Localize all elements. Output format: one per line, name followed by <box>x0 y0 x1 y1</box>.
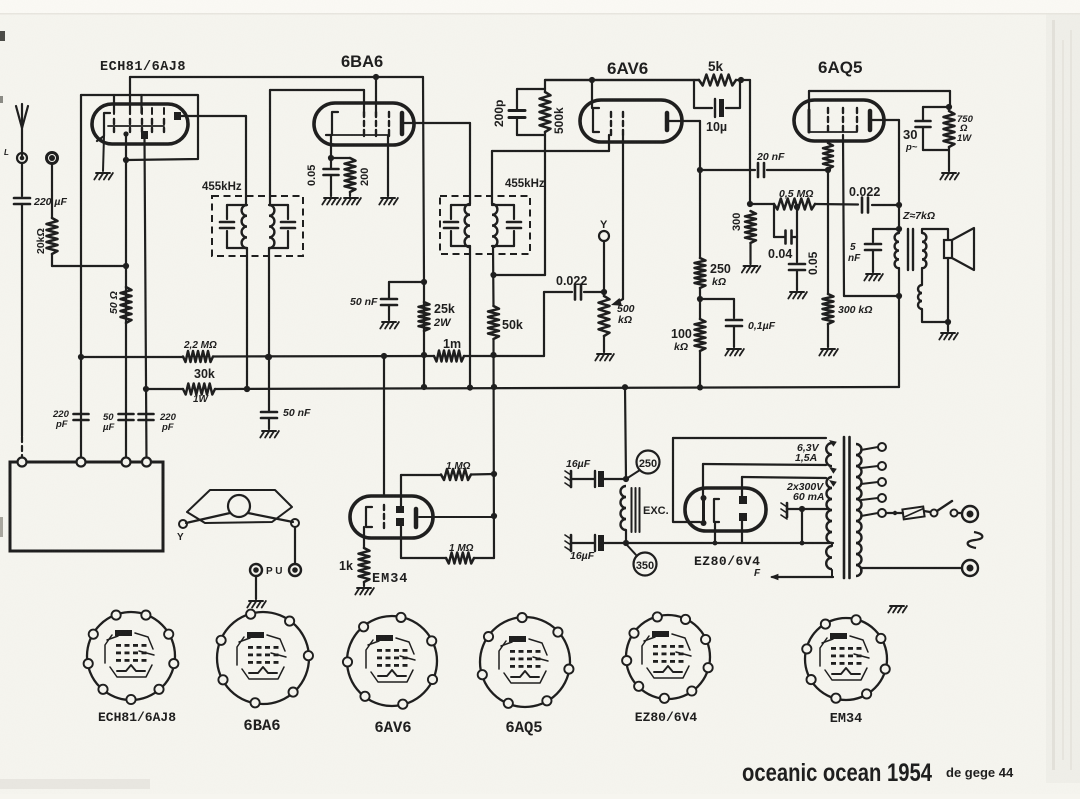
T2 secondary cap <box>492 205 521 246</box>
ground 50nF AVC <box>262 430 276 432</box>
ground speaker <box>941 332 955 334</box>
capacitor 50nF AVC <box>261 412 277 429</box>
resistor 30k <box>183 384 215 395</box>
eye voltage 250 <box>626 451 660 480</box>
label 25k 2W <box>433 302 455 329</box>
ground 750 ohm <box>942 172 956 174</box>
wire cathode line EZ80 <box>626 541 833 546</box>
tube U1 ECH81 envelope <box>92 104 188 144</box>
scan speck left middle <box>0 517 3 537</box>
resistor 5k <box>699 75 750 86</box>
U4 cathode <box>809 110 857 132</box>
power transformer primary <box>856 444 862 576</box>
field coil core bar <box>632 488 640 532</box>
wire 50k bottom to EM34 node <box>490 339 497 558</box>
T2 primary cap <box>444 205 470 246</box>
wire T2 primary bottom to HT bus <box>469 246 471 387</box>
hum coil <box>918 285 922 309</box>
antenna <box>16 104 28 156</box>
capacitor 5nF <box>865 229 899 272</box>
wire U1 box left vertical <box>78 95 84 462</box>
wire U1 wrap box <box>81 95 198 163</box>
capacitor 16uF lower <box>565 535 629 551</box>
wire U5 risers <box>703 464 742 497</box>
T1 secondary coil <box>269 205 274 248</box>
tube U6 EM34 envelope <box>350 496 433 538</box>
wire bus to EM34 grid <box>383 356 385 496</box>
U1 anode <box>174 112 181 120</box>
U3 anode <box>667 113 700 130</box>
T1 secondary cap <box>269 205 295 248</box>
power transformer HV winding <box>827 477 832 543</box>
wire 6AQ5 anode vertical <box>896 120 902 233</box>
wire 6AV6 to 5k bus <box>545 79 699 81</box>
label mains AC <box>968 532 983 548</box>
resistor 6AQ5 grid <box>823 143 833 169</box>
U6 grid <box>383 505 385 528</box>
pickup head <box>187 490 292 523</box>
U2 grids <box>364 112 389 136</box>
capacitor 200p <box>509 89 545 135</box>
label 6.3V 1.5A <box>795 442 820 464</box>
wire hum coil to ground node <box>922 309 951 325</box>
wire filament winding ends <box>832 543 833 577</box>
capacitor 0.022 AF coupling <box>544 285 607 300</box>
ground transformer <box>890 605 904 607</box>
field coil EXC <box>621 486 627 543</box>
output transformer secondary <box>922 233 926 268</box>
U1 cathode <box>97 113 110 171</box>
wire primary bottom to mains terminal <box>861 568 962 571</box>
wire top bus ECH81-6BA6 <box>130 74 423 116</box>
wire HV top line <box>742 477 826 478</box>
ground 50nF screen <box>382 321 396 323</box>
ground PU <box>249 600 263 602</box>
wire F filament line <box>772 576 833 578</box>
pickup terminal Y <box>177 520 187 543</box>
T1 primary coil <box>242 205 247 248</box>
capacitor 0.05 cathode <box>324 169 339 196</box>
resistor 250k <box>695 170 706 302</box>
resistor 100k <box>695 299 706 387</box>
T2 primary coil <box>465 204 470 247</box>
wire IF1 secondary to 6BA6 grid <box>270 90 364 204</box>
capacitor 0.1uF <box>700 299 742 347</box>
label 220pF mixer <box>159 412 177 433</box>
U5 anode pins <box>739 496 747 521</box>
wire secondary bottom hum coil <box>921 268 923 285</box>
wire U3 diode to pot wiper <box>616 135 623 303</box>
socket 6BA6 <box>217 610 314 708</box>
U2 cathode <box>326 112 338 135</box>
capacitor centre tap ground <box>781 503 787 519</box>
capacitor 50pF <box>119 413 134 416</box>
wire B+ to field coil <box>623 387 629 482</box>
mains tap with fuse and switch <box>861 509 903 517</box>
label 750 ohm 1W <box>957 114 974 144</box>
PU jacks <box>250 564 301 577</box>
resistor 50k <box>488 306 499 339</box>
label 2x300V 60mA <box>786 481 825 503</box>
wire 6AQ5 grid node down <box>827 170 829 294</box>
wire heater loop <box>673 438 700 522</box>
mains terminal lower <box>962 560 978 576</box>
antenna terminal <box>17 153 27 163</box>
wire U5 cathode pin down <box>714 522 716 543</box>
wire antenna series cap <box>21 163 23 196</box>
ground 0.05 <box>324 197 338 199</box>
pickup arms <box>186 513 293 523</box>
ground 0.1uF <box>727 348 741 350</box>
ground pot <box>597 353 611 355</box>
label 5 nF <box>848 242 861 264</box>
socket 6AQ5 <box>478 613 574 708</box>
ground 5nF <box>866 273 880 275</box>
wire speaker return <box>947 258 949 331</box>
terminal Y pot <box>599 219 609 296</box>
capacitor 220pF antenna <box>14 198 30 436</box>
wire secondary top to speaker <box>922 229 948 240</box>
wire 20k to mixer pin <box>52 263 129 269</box>
tube U5 EZ80 envelope <box>685 488 766 531</box>
wire 0.5M line <box>747 201 774 207</box>
tube U3 6AV6 envelope <box>580 100 682 142</box>
resistor 200 cathode <box>331 158 356 196</box>
switch <box>931 501 963 517</box>
tube U2 6BA6 envelope <box>314 103 414 145</box>
wire fuse to switch <box>924 511 930 512</box>
ground 0.05 tone <box>790 291 804 293</box>
resistor 500k AVC <box>540 80 551 135</box>
label 250 kOhm <box>710 262 731 288</box>
label 500kOhm pot <box>617 303 635 326</box>
wire 6AQ5 cathode top line <box>809 91 952 110</box>
output transformer primary <box>895 233 899 268</box>
wire screen feed vertical <box>421 77 427 390</box>
label 100 kOhm <box>671 327 692 353</box>
ground U1 cathode <box>96 172 110 174</box>
tuning gang terminals <box>18 458 152 467</box>
tube U4 6AQ5 envelope <box>794 100 884 141</box>
capacitor 0.04 <box>774 204 800 244</box>
capacitor 16uF upper <box>565 471 626 487</box>
ground 300 ohm <box>744 265 758 267</box>
potentiometer 500kOhm <box>599 296 610 352</box>
wire T1 primary bottom to HT bus <box>244 248 250 392</box>
capacitor 50nF screen <box>381 282 424 320</box>
U1 internal tie <box>108 125 164 127</box>
IF transformer T1 box <box>212 196 303 256</box>
U1 bottom pins <box>123 131 148 139</box>
capacitor 30p <box>916 107 950 150</box>
capacitor 0.05 tone <box>789 237 805 290</box>
socket EZ80/6V4 <box>622 612 713 703</box>
resistor 20k <box>47 164 58 266</box>
U4 anode <box>870 111 899 130</box>
U6 deflectors <box>396 506 404 526</box>
wire 0.022 to AVC bus <box>543 292 545 356</box>
scan speck left top <box>0 31 5 41</box>
wire AVC bus <box>81 353 544 360</box>
U2 anode <box>400 113 405 134</box>
pickup terminal right <box>291 519 299 527</box>
wire dashed to tuning gang <box>21 437 23 458</box>
resistor 0.5M <box>774 199 815 210</box>
wire HV centre tap <box>787 506 828 543</box>
label 30k 1W <box>193 367 215 405</box>
T2 secondary coil <box>492 204 497 247</box>
eye voltage 350 <box>626 544 657 576</box>
U5 cathode bracket <box>714 499 719 522</box>
label 220pF osc <box>52 409 70 430</box>
terminal 2 <box>47 153 58 164</box>
wire U1 anode to IF1 primary <box>181 116 246 204</box>
capacitor 220pF osc <box>74 413 89 416</box>
tuning gang box <box>10 462 163 551</box>
wire PU jack to ground <box>255 576 257 599</box>
resistor 25k 2W <box>419 302 430 331</box>
wire U2 anode to IF2 <box>404 123 470 204</box>
U1 grid pins <box>114 108 164 132</box>
mains terminal upper <box>962 506 978 522</box>
IF transformer T2 box <box>440 196 530 254</box>
wire T2 secondary bottom <box>490 246 496 306</box>
ground 200 <box>344 197 358 199</box>
wire 6AQ5 screen down <box>843 135 902 299</box>
resistor 2.2M <box>183 351 213 362</box>
wire HT bus <box>146 384 899 392</box>
wire 6AV6 anode down <box>697 121 703 173</box>
power transformer 6.3V winding <box>826 443 832 466</box>
U2 internal tie <box>332 134 389 136</box>
ground U2 g3 <box>381 197 395 199</box>
paper texture <box>0 0 1 1</box>
capacitor 10uF <box>694 80 740 117</box>
wire 5k to 0.5M line <box>749 80 751 204</box>
U3 cathode <box>593 108 599 132</box>
U5 plate bar <box>701 495 707 526</box>
capacitor 0.022 plate <box>815 198 902 213</box>
U6 cathode <box>366 507 372 527</box>
U4 grids <box>828 108 857 131</box>
wire U3 grid pin down <box>608 135 610 142</box>
wire primary bottom to B+ <box>898 268 900 387</box>
wire U1 signal grid pin down <box>125 135 127 462</box>
ground 1k <box>357 587 371 589</box>
T1 primary cap <box>220 205 247 248</box>
capacitor 20nF <box>700 163 831 177</box>
wire 6.3V top line <box>673 437 826 439</box>
resistor 50 ohm <box>121 287 132 323</box>
wire 6AV6 top bus <box>545 77 699 108</box>
wire U5 anode pin down <box>741 521 743 543</box>
socket ECH81/6AJ8 <box>84 611 179 705</box>
power transformer filament winding <box>826 546 832 569</box>
resistor 1m <box>434 351 464 362</box>
U6 target <box>414 509 419 527</box>
socket 6AV6 <box>343 613 437 709</box>
power transformer core <box>844 437 850 578</box>
wire EM34 target to node <box>419 516 494 518</box>
resistor 1M upper <box>401 469 494 506</box>
resistor 300k <box>823 294 834 347</box>
ground 300k <box>821 348 835 350</box>
wire U2 g3 down <box>387 136 389 196</box>
wire pickup to jack <box>294 527 296 564</box>
fuse <box>902 507 924 520</box>
resistor 1k EM34 cathode <box>359 527 370 586</box>
U3 grid and diode pins <box>611 112 623 135</box>
label 50pF <box>102 412 114 433</box>
speaker <box>944 228 974 270</box>
wire U1 osc pin down <box>143 139 149 462</box>
wire T1 secondary bottom to AVC bus <box>266 248 272 411</box>
wire U2 cathode down <box>328 136 334 168</box>
resistor 300 ohm <box>745 211 756 264</box>
output transformer core <box>908 229 913 270</box>
wire AVC link to 500k <box>494 135 546 275</box>
label 30p <box>903 127 918 153</box>
wire 6.3V bottom line <box>703 464 826 465</box>
socket EM34 <box>802 615 890 703</box>
primary taps <box>861 443 886 502</box>
capacitor 220pF mixer <box>139 413 154 416</box>
wire T2 secondary top to 6AV6 grid <box>492 142 609 204</box>
resistor 1M lower <box>401 526 494 564</box>
resistor 750 ohm <box>944 111 955 171</box>
